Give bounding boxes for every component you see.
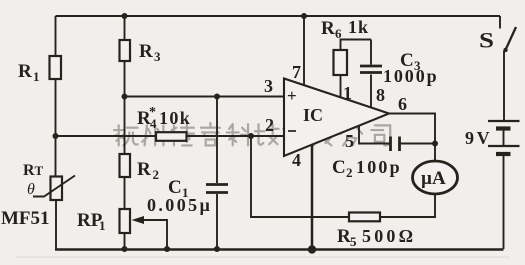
potentiometer RP1 (77, 209, 130, 233)
svg-text:IC: IC (303, 105, 323, 125)
resistor R1 (18, 56, 61, 84)
svg-text:+: + (287, 86, 297, 105)
svg-text:3: 3 (264, 76, 273, 96)
svg-text:MF51: MF51 (1, 208, 50, 229)
svg-text:R: R (23, 162, 35, 179)
resistor R2 (120, 154, 160, 182)
battery B1 9V (465, 121, 520, 154)
wire left column lower (55, 200, 57, 249)
wire R3 top stub (124, 16, 126, 40)
node top rail pin7 (301, 13, 307, 19)
svg-text:1000p: 1000p (383, 66, 439, 86)
node feedback junction pin2 (248, 133, 254, 139)
wire output pin6 (389, 114, 435, 145)
svg-text:C: C (332, 157, 346, 178)
wire top rail (56, 15, 501, 17)
svg-text:8: 8 (376, 85, 385, 105)
wire meter top (434, 144, 436, 162)
wire R3 to R2 (124, 61, 126, 154)
watermark 杭州将睿科技有限公司 (114, 123, 390, 145)
svg-text:R: R (137, 159, 151, 180)
resistor R3 (120, 40, 162, 64)
capacitor C2 (332, 137, 402, 181)
node R3 bottom junction (122, 94, 128, 100)
svg-text:5: 5 (345, 131, 354, 151)
svg-text:100p: 100p (356, 157, 402, 177)
node RP1 bottom rail (122, 246, 128, 252)
wire pin1 (340, 75, 342, 98)
svg-text:T: T (35, 163, 44, 178)
wire left column middle (55, 79, 57, 177)
node wiper ground (164, 246, 170, 252)
wire C3 top stub (370, 40, 372, 65)
wire meter bottom to R5 (380, 194, 435, 218)
svg-text:500Ω: 500Ω (362, 226, 416, 246)
svg-text:1: 1 (33, 69, 40, 84)
wire pin4 (311, 145, 314, 249)
resistor R5 (337, 213, 416, 250)
capacitor C3 (360, 50, 439, 86)
resistor R4 (137, 105, 191, 141)
wire pin5 to C2 (359, 126, 390, 144)
resistor R6 (321, 17, 369, 75)
svg-text:3: 3 (154, 49, 161, 64)
wire C2 to output node (401, 143, 436, 145)
wire switch to battery (503, 51, 505, 120)
svg-text:2: 2 (346, 165, 353, 180)
thermistor RT (1, 162, 75, 229)
wire left column upper (55, 16, 57, 56)
node C1 bottom rail (214, 246, 220, 252)
svg-text:4: 4 (292, 150, 301, 170)
svg-text:5: 5 (350, 234, 357, 249)
svg-text:R: R (139, 41, 153, 62)
wire pin8 (370, 75, 372, 109)
capacitor C1 (147, 177, 228, 215)
svg-text:0.005µ: 0.005µ (147, 195, 212, 215)
wiper arrow RP1 (132, 216, 145, 224)
wire switch stub (499, 16, 501, 29)
op-amp U1 IC (284, 79, 389, 157)
wire R2 to RP1 (124, 177, 126, 209)
switch S (479, 27, 516, 53)
svg-text:7: 7 (292, 62, 301, 82)
svg-text:9V: 9V (465, 128, 492, 148)
wire RP1 bottom (124, 233, 126, 249)
node left-R4 junction (53, 133, 59, 139)
svg-text:10k: 10k (159, 108, 191, 128)
svg-text:R: R (321, 18, 335, 39)
svg-text:1: 1 (99, 218, 106, 233)
svg-text:2: 2 (153, 167, 160, 182)
svg-text:µA: µA (421, 168, 446, 189)
svg-text:θ: θ (27, 181, 35, 198)
svg-text:4: 4 (150, 116, 157, 131)
svg-text:R: R (18, 61, 32, 82)
svg-text:1k: 1k (348, 17, 369, 37)
node pin4 ground (308, 245, 316, 253)
node output junction (432, 141, 438, 147)
svg-text:1: 1 (343, 83, 352, 103)
wire noninverting input pin3 net (125, 96, 285, 98)
scan artifact line (15, 257, 510, 258)
wire R6 top bracket (341, 40, 372, 51)
svg-text:6: 6 (335, 26, 342, 41)
svg-text:2: 2 (265, 115, 274, 135)
svg-text:6: 6 (398, 94, 407, 114)
wire pin7 (303, 16, 305, 86)
node top rail R3 (122, 13, 128, 19)
wire C1 upper (216, 97, 218, 184)
wire inverting input pin2 net (56, 135, 285, 137)
wire battery to bottom rail (503, 156, 505, 249)
svg-text:S: S (479, 28, 494, 53)
wire C1 lower (216, 194, 218, 249)
wire R5 to feedback node (251, 136, 349, 217)
node C1 top (214, 94, 220, 100)
meter uA M1 (413, 161, 458, 194)
svg-text:R: R (337, 226, 351, 247)
wire bottom rail (55, 248, 504, 251)
wire RP1 wiper to ground (142, 220, 167, 249)
